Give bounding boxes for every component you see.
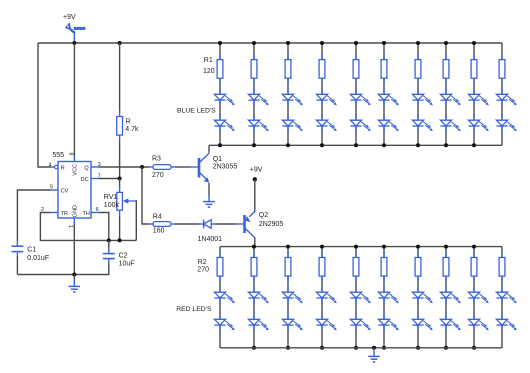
wire: red column 4 <box>321 247 323 348</box>
node: red col 7 top <box>416 245 420 249</box>
resistor red col 5 <box>355 252 357 258</box>
svg-text:GND: GND <box>73 205 79 217</box>
node: blue col 8 bottom <box>444 143 448 147</box>
resistor R3 270 <box>149 166 153 168</box>
node: pin7/RV1 junction <box>118 177 122 181</box>
LED blue 8a <box>445 88 447 94</box>
potentiometer RV1 100k <box>119 186 121 192</box>
svg-text:4.7k: 4.7k <box>125 126 139 133</box>
node: blue col 4 top <box>320 41 324 45</box>
node: red col 2 top <box>252 245 256 249</box>
resistor blue col 2 <box>253 54 255 60</box>
wire: red column 6 <box>383 247 385 348</box>
wire: C2 to ground rail <box>17 264 108 275</box>
ground symbol (Q1) <box>208 195 210 201</box>
wire: red column 8 <box>445 247 447 348</box>
LED blue 1a <box>219 88 221 94</box>
svg-text:1N4001: 1N4001 <box>198 236 223 243</box>
wire: pin 6 TH down to net <box>99 213 109 241</box>
svg-text:VCC: VCC <box>73 164 79 176</box>
node: blue col 9 top <box>472 41 476 45</box>
node: red col 6 top <box>382 245 386 249</box>
wire: branch down to R4 <box>142 167 149 224</box>
wire: red column 5 <box>355 247 357 348</box>
node: blue col 7 bottom <box>416 143 420 147</box>
svg-text:120: 120 <box>203 68 215 75</box>
LED red 7b <box>417 313 419 319</box>
node: +9V terminal dot <box>253 177 257 181</box>
resistor blue col 10 <box>501 54 503 60</box>
wire: red LED feed rail (from Q2 collector) <box>220 246 502 248</box>
svg-text:TR: TR <box>61 211 68 217</box>
svg-text:C2: C2 <box>119 252 128 259</box>
svg-text:TH: TH <box>82 211 89 217</box>
LED blue 3b <box>287 114 289 120</box>
wire: red column 9 <box>473 247 475 348</box>
svg-text:+9V: +9V <box>250 166 263 173</box>
LED blue 9b <box>473 114 475 120</box>
resistor blue col 3 <box>287 54 289 60</box>
node: blue col 8 top <box>444 41 448 45</box>
resistor R 4.7k <box>119 111 121 117</box>
wire: rail to R 4.7k <box>119 43 121 111</box>
node: red col 4 top <box>320 245 324 249</box>
node: red col 2 bottom <box>252 346 256 350</box>
wire: Q2 collector down to red LED rail <box>254 238 256 247</box>
node: red col 8 top <box>444 245 448 249</box>
svg-text:R2: R2 <box>198 259 207 266</box>
LED red 8b <box>445 313 447 319</box>
node: output branch junction <box>140 165 144 169</box>
LED blue 4a <box>321 88 323 94</box>
resistor red col 1 <box>219 252 221 258</box>
svg-text:RED LED'S: RED LED'S <box>176 306 212 313</box>
wire: red column 7 <box>417 247 419 348</box>
node: ground junction <box>72 273 76 277</box>
resistor red col 10 <box>501 252 503 258</box>
LED red 7a <box>417 286 419 292</box>
node: red col 7 bottom <box>416 346 420 350</box>
LED blue 2b <box>253 114 255 120</box>
svg-text:RV1: RV1 <box>104 194 118 201</box>
svg-text:270: 270 <box>152 172 164 179</box>
svg-text:Q: Q <box>84 165 89 171</box>
wire: blue column 5 <box>355 43 357 145</box>
wire: red column 1 <box>219 247 221 348</box>
LED blue 7b <box>417 114 419 120</box>
ground symbol (LED array) <box>373 350 375 356</box>
wire: blue column 10 <box>501 43 503 145</box>
LED red 10a <box>501 286 503 292</box>
pin 6 TH stub <box>91 212 99 214</box>
pin 7 DC stub <box>91 178 99 180</box>
LED blue 3a <box>287 88 289 94</box>
wire: blue column 2 <box>253 43 255 145</box>
LED red 10b <box>501 313 503 319</box>
wire: blue column 3 <box>287 43 289 145</box>
wire: red LED bottom ground rail <box>220 347 502 349</box>
wire: pin 5 CV to C1 <box>17 190 50 241</box>
pin 8 VCC stub <box>73 156 75 162</box>
pin 4 R bubble <box>55 165 58 168</box>
svg-text:100k: 100k <box>104 202 120 209</box>
resistor blue col 7 <box>417 54 419 60</box>
op-amp/timer U1 555 IC body <box>58 162 91 219</box>
wire: left branch down to 555 pin 4 <box>38 43 51 167</box>
wire: pin 1 GND down <box>73 224 75 275</box>
LED red 8a <box>445 286 447 292</box>
svg-text:DC: DC <box>81 177 89 183</box>
LED blue 1b <box>219 114 221 120</box>
wire: RV1 bottom to TR/TH net <box>119 216 121 240</box>
wire: Q1 collector up to blue LED return rail <box>208 145 210 153</box>
svg-text:8: 8 <box>67 152 73 155</box>
wire: red column 2 <box>253 247 255 348</box>
svg-text:Q1: Q1 <box>213 156 222 163</box>
node: blue col 3 bottom <box>286 143 290 147</box>
node: red col 5 top <box>354 245 358 249</box>
LED red 4b <box>321 313 323 319</box>
LED blue 7a <box>417 88 419 94</box>
LED blue 10a <box>501 88 503 94</box>
resistor blue col 4 <box>321 54 323 60</box>
RV1 wiper arrow <box>128 200 136 202</box>
LED red 4a <box>321 286 323 292</box>
wire: Q1 emitter down <box>208 183 210 196</box>
LED blue 10b <box>501 114 503 120</box>
LED red 3a <box>287 286 289 292</box>
wire: pin 3 to R3 <box>99 166 149 168</box>
node: blue col 5 bottom <box>354 143 358 147</box>
transistor Q2 emitter stub <box>254 210 256 213</box>
svg-text:5: 5 <box>50 184 53 190</box>
LED blue 5b <box>355 114 357 120</box>
svg-text:2N2905: 2N2905 <box>259 221 284 228</box>
resistor blue col 9 <box>473 54 475 60</box>
wire: blue column 4 <box>321 43 323 145</box>
node: blue col 6 top <box>382 41 386 45</box>
transistor Q2 base stub <box>236 223 244 225</box>
node: red col 3 bottom <box>286 346 290 350</box>
transistor Q1 2N3055 <box>198 158 201 178</box>
node: red col 5 bottom <box>354 346 358 350</box>
svg-text:R1: R1 <box>204 57 213 64</box>
svg-text:1: 1 <box>67 225 73 228</box>
svg-text:160: 160 <box>153 227 165 234</box>
pin 4 stub <box>51 166 55 168</box>
wire: blue column 9 <box>473 43 475 145</box>
LED blue 5a <box>355 88 357 94</box>
node: blue col 5 top <box>354 41 358 45</box>
node: RV1 bottom junction <box>118 238 122 242</box>
LED red 1b <box>219 313 221 319</box>
svg-text:555: 555 <box>52 152 64 159</box>
resistor blue col 1 <box>219 54 221 60</box>
LED red 5a <box>355 286 357 292</box>
node: red col 9 bottom <box>472 346 476 350</box>
svg-text:R: R <box>61 165 65 171</box>
resistor red col 9 <box>473 252 475 258</box>
svg-text:10uF: 10uF <box>119 260 135 267</box>
diode D1 1N4001 <box>199 223 204 225</box>
wire: red column 3 <box>287 247 289 348</box>
LED blue 8b <box>445 114 447 120</box>
wire: C1 to ground rail <box>16 256 18 275</box>
transistor Q2 2N2905 <box>243 215 246 233</box>
svg-text:BLUE LED'S: BLUE LED'S <box>177 108 216 115</box>
pin 2 TR stub <box>50 212 58 214</box>
svg-text:CV: CV <box>61 188 69 194</box>
svg-text:R4: R4 <box>153 213 162 220</box>
svg-text:+9V: +9V <box>63 14 76 21</box>
node: blue col 2 bottom <box>252 143 256 147</box>
node: blue col 7 top <box>416 41 420 45</box>
pin 1 GND stub <box>73 218 75 224</box>
resistor blue col 5 <box>355 54 357 60</box>
node: blue col 1 bottom <box>218 143 222 147</box>
wire: R 4.7k to pin 7 junction <box>119 141 121 179</box>
wire: red column 10 <box>501 247 503 348</box>
LED blue 2a <box>253 88 255 94</box>
LED red 9b <box>473 313 475 319</box>
wire: +9V to Q2 emitter <box>254 179 256 210</box>
LED red 1a <box>219 286 221 292</box>
ground symbol (555) <box>73 275 75 280</box>
node: blue col 2 top <box>252 41 256 45</box>
resistor red col 4 <box>321 252 323 258</box>
resistor red col 7 <box>417 252 419 258</box>
svg-text:C1: C1 <box>27 246 36 253</box>
wire: pin 2 TR loop to net <box>40 213 136 241</box>
svg-text:R3: R3 <box>152 156 161 163</box>
wire: stem to ground <box>373 348 375 350</box>
node: C2/TH junction <box>107 238 111 242</box>
svg-text:0.01uF: 0.01uF <box>27 255 49 262</box>
node: blue col 1 top <box>218 41 222 45</box>
pin 5 CV stub <box>50 189 58 191</box>
wire: blue LED return rail (to Q1 collector) <box>209 144 502 146</box>
wire: blue column 7 <box>417 43 419 145</box>
node: red col 4 bottom <box>320 346 324 350</box>
capacitor C1 0.01uF <box>16 241 18 246</box>
LED red 6a <box>383 286 385 292</box>
svg-text:4: 4 <box>48 162 51 168</box>
wire: D1 to Q2 base <box>216 223 237 225</box>
LED red 9a <box>473 286 475 292</box>
capacitor C2 10uF <box>108 240 110 248</box>
wire: wiper down to TR/TH net <box>135 201 138 240</box>
resistor blue col 6 <box>383 54 385 60</box>
LED blue 6b <box>383 114 385 120</box>
wire: blue column 6 <box>383 43 385 145</box>
resistor red col 6 <box>383 252 385 258</box>
LED red 2a <box>253 286 255 292</box>
transistor Q1 base stub <box>190 166 198 168</box>
LED blue 9a <box>473 88 475 94</box>
node: blue col 4 bottom <box>320 143 324 147</box>
LED red 2b <box>253 313 255 319</box>
LED blue 6a <box>383 88 385 94</box>
node: red col 6 bottom <box>382 346 386 350</box>
svg-text:270: 270 <box>197 267 209 274</box>
node: red col 3 top <box>286 245 290 249</box>
wire: blue column 8 <box>445 43 447 145</box>
wire: blue column 1 <box>219 43 221 145</box>
node: R 4.7k top junction <box>118 41 122 45</box>
node: blue col 3 top <box>286 41 290 45</box>
resistor red col 8 <box>445 252 447 258</box>
resistor R4 160 <box>149 223 153 225</box>
node: red col 9 top <box>472 245 476 249</box>
node: ground stem junction <box>372 346 376 350</box>
svg-text:6: 6 <box>96 207 99 213</box>
LED red 3b <box>287 313 289 319</box>
wire: +9V top rail <box>38 42 502 44</box>
node: supply junction <box>72 41 76 45</box>
wire: pin 7 to junction <box>99 178 120 180</box>
node: blue col 9 bottom <box>472 143 476 147</box>
resistor blue col 8 <box>445 54 447 60</box>
pin 3 Q stub <box>91 166 99 168</box>
node: red col 8 bottom <box>444 346 448 350</box>
node: blue col 6 bottom <box>382 143 386 147</box>
wire: R3 to Q1 base <box>175 166 190 168</box>
resistor red col 3 <box>287 252 289 258</box>
LED red 5b <box>355 313 357 319</box>
wire: junction down to RV1 <box>119 179 121 188</box>
resistor red col 2 <box>253 252 255 258</box>
wire: R4 to D1 <box>175 223 199 225</box>
svg-text:2N3055: 2N3055 <box>213 164 238 171</box>
LED red 6b <box>383 313 385 319</box>
svg-text:R: R <box>126 118 131 125</box>
LED blue 4b <box>321 114 323 120</box>
+9V battery symbol <box>65 22 86 43</box>
svg-text:Q2: Q2 <box>259 212 268 219</box>
